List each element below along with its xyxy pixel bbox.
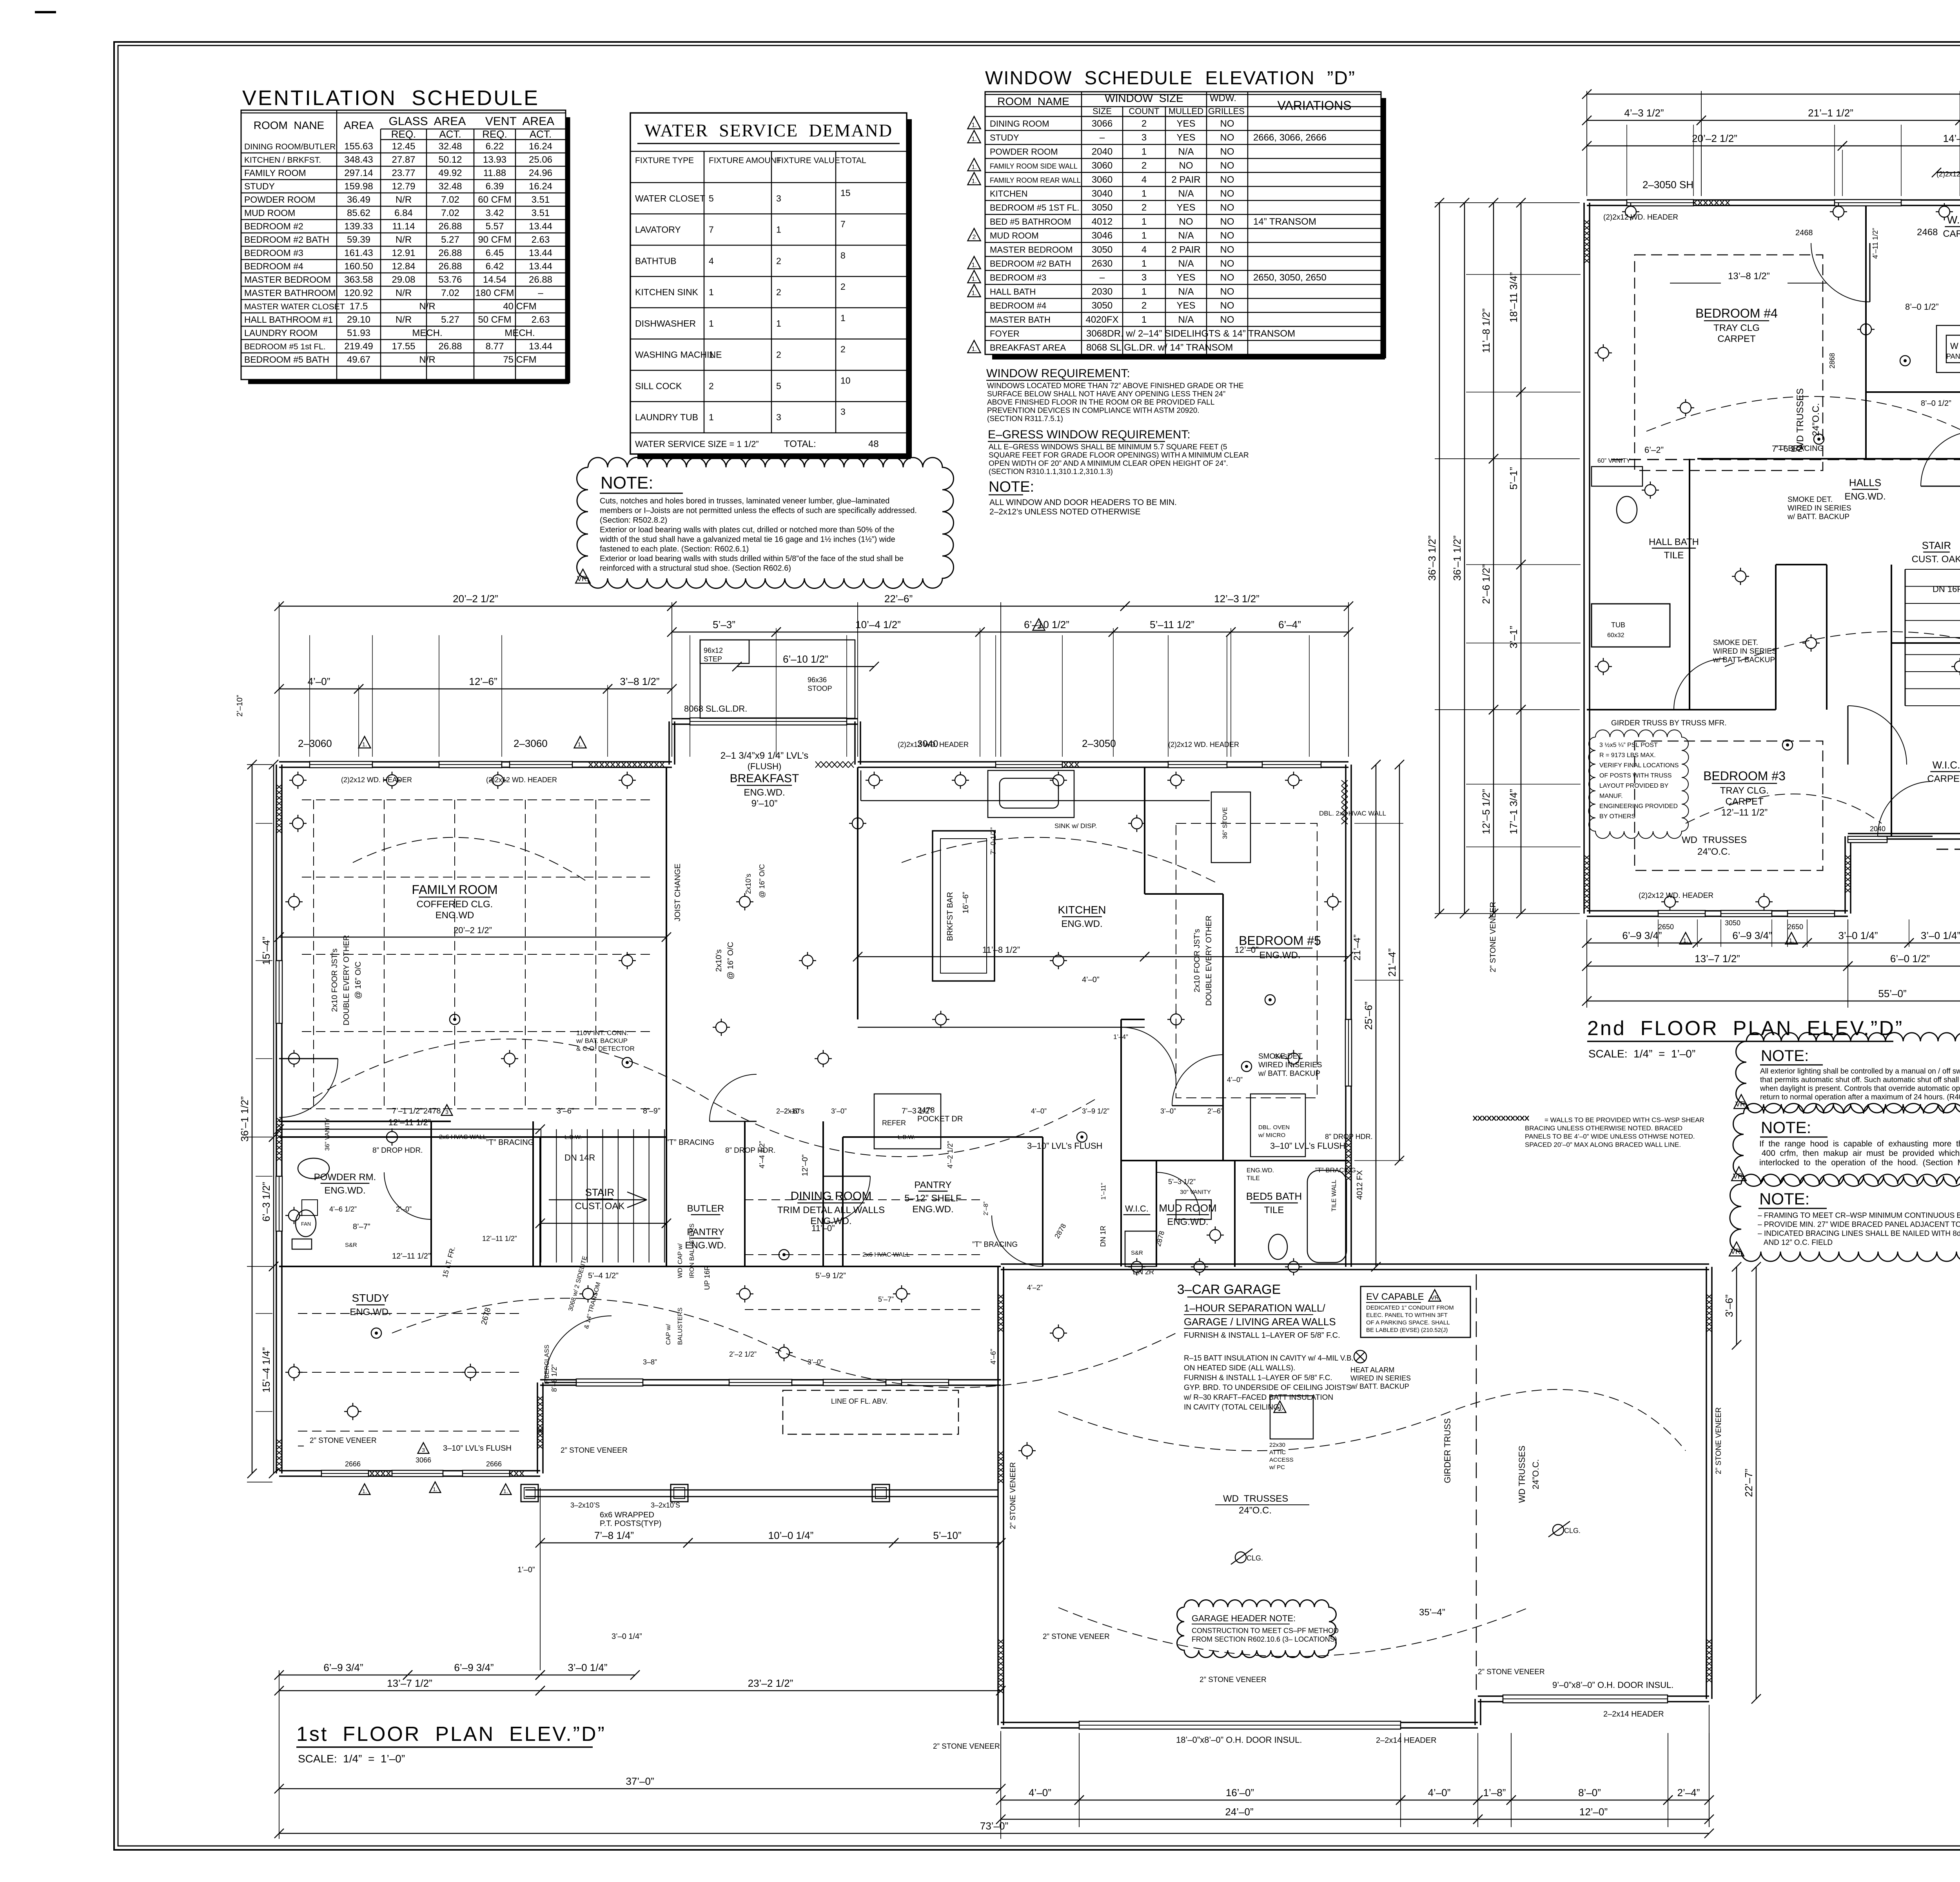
svg-text:YES: YES — [1176, 133, 1195, 143]
svg-text:7’–0 1/2”: 7’–0 1/2” — [989, 827, 997, 855]
svg-text:1: 1 — [776, 225, 781, 235]
svg-text:3–10” LVL’s FLUSH: 3–10” LVL’s FLUSH — [443, 1444, 512, 1453]
svg-text:DBL. OVEN: DBL. OVEN — [1258, 1124, 1290, 1131]
svg-text:2” STONE VENEER: 2” STONE VENEER — [1715, 1407, 1723, 1474]
svg-text:1: 1 — [1142, 189, 1147, 199]
svg-text:3’–0 1/4”: 3’–0 1/4” — [568, 1662, 607, 1673]
1st floor dimensions top — [279, 602, 279, 757]
svg-text:WINDOWS LOCATED MORE THAN 72”: WINDOWS LOCATED MORE THAN 72” ABOVE FINI… — [987, 382, 1244, 390]
svg-text:13’–8 1/2”: 13’–8 1/2” — [1728, 271, 1770, 282]
svg-text:10’–4 1/2”: 10’–4 1/2” — [855, 619, 901, 630]
svg-text:2.63: 2.63 — [532, 314, 550, 325]
svg-text:26.88: 26.88 — [438, 261, 462, 272]
svg-text:37’–0”: 37’–0” — [626, 1775, 654, 1787]
svg-text:4’–3 1/2”: 4’–3 1/2” — [1624, 107, 1664, 119]
svg-text:NO: NO — [1220, 300, 1234, 311]
svg-text:(2)2x12 WD. HEADER: (2)2x12 WD. HEADER — [1936, 170, 1960, 178]
svg-text:3’–0 1/4”: 3’–0 1/4” — [1921, 930, 1960, 941]
svg-text:12’–11 1/2”: 12’–11 1/2” — [388, 1117, 431, 1127]
svg-text:SMOKE DET.: SMOKE DET. — [1258, 1052, 1303, 1061]
svg-text:BALUSTERS: BALUSTERS — [677, 1308, 684, 1345]
svg-text:VR.: VR. — [577, 575, 589, 583]
svg-text:3’–9 1/2”: 3’–9 1/2” — [1082, 1107, 1109, 1115]
svg-text:WD TRUSSES: WD TRUSSES — [1795, 388, 1806, 451]
svg-text:LAYOUT PROVIDED BY: LAYOUT PROVIDED BY — [1599, 783, 1669, 789]
svg-text:12.84: 12.84 — [392, 261, 415, 272]
svg-text:5.27: 5.27 — [441, 234, 459, 245]
svg-text:R–15 BATT INSULATION IN CAVITY: R–15 BATT INSULATION IN CAVITY w/ 4–MIL … — [1184, 1354, 1354, 1362]
svg-text:12.79: 12.79 — [392, 181, 415, 192]
svg-text:2650: 2650 — [1788, 923, 1803, 931]
svg-text:24”O.C.: 24”O.C. — [1239, 1505, 1272, 1516]
svg-text:12’–0”: 12’–0” — [801, 1154, 809, 1176]
svg-text:2x10 FOOR JST’s: 2x10 FOOR JST’s — [1193, 929, 1201, 992]
svg-text:(2)2x12 WD. HEADER: (2)2x12 WD. HEADER — [1639, 892, 1713, 900]
attic access garage — [1270, 1396, 1313, 1439]
svg-text:ALL E–GRESS WINDOWS SHALL BE M: ALL E–GRESS WINDOWS SHALL BE MINIMUM 5.7… — [989, 443, 1227, 451]
svg-text:5.27: 5.27 — [441, 314, 459, 325]
svg-text:90 CFM: 90 CFM — [478, 234, 511, 245]
svg-text:NOTE:: NOTE: — [1761, 1118, 1811, 1137]
svg-text:4’–0”: 4’–0” — [1227, 1076, 1243, 1084]
svg-text:1: 1 — [1142, 216, 1147, 227]
ventilation schedule table — [241, 110, 566, 380]
svg-text:–: – — [1100, 272, 1105, 283]
svg-text:2: 2 — [840, 282, 846, 292]
svg-text:BEDROOM #4: BEDROOM #4 — [244, 261, 303, 271]
svg-text:w/ BATT. BACKUP: w/ BATT. BACKUP — [1350, 1382, 1409, 1390]
svg-text:6.42: 6.42 — [486, 261, 504, 272]
svg-text:7.02: 7.02 — [441, 288, 459, 298]
svg-text:160.50: 160.50 — [344, 261, 373, 272]
svg-text:1.: 1. — [362, 741, 367, 748]
svg-text:w/ BATT. BACKUP: w/ BATT. BACKUP — [1258, 1070, 1320, 1078]
svg-text:1.: 1. — [362, 1488, 367, 1494]
svg-text:NO: NO — [1179, 160, 1193, 171]
svg-text:FAMILY ROOM: FAMILY ROOM — [412, 883, 497, 897]
svg-text:13’–7 1/2”: 13’–7 1/2” — [387, 1677, 432, 1689]
svg-text:2–1 3/4”x9 1/4” LVL’s: 2–1 3/4”x9 1/4” LVL’s — [720, 750, 809, 761]
svg-text:7’–6 1/2”: 7’–6 1/2” — [1772, 444, 1806, 454]
svg-text:IRON BALUSTERS: IRON BALUSTERS — [689, 1223, 695, 1278]
revision triangle — [968, 158, 981, 171]
svg-text:”T” BRACING: ”T” BRACING — [1315, 1166, 1356, 1174]
svg-text:3: 3 — [840, 407, 846, 417]
svg-text:1: 1 — [840, 313, 846, 323]
svg-text:2’–10”: 2’–10” — [236, 695, 244, 717]
svg-text:1: 1 — [1142, 314, 1147, 325]
svg-text:SCALE: 1/4” = 1’–0”: SCALE: 1/4” = 1’–0” — [1588, 1048, 1695, 1060]
svg-text:3 ½x5 ¼” PSL POST: 3 ½x5 ¼” PSL POST — [1599, 742, 1658, 748]
1st floor interior walls — [279, 767, 1348, 1267]
svg-text:w/ PC: w/ PC — [1269, 1464, 1285, 1471]
svg-text:LAVATORY: LAVATORY — [635, 225, 681, 235]
svg-text:BEDROOM #4: BEDROOM #4 — [1695, 306, 1778, 320]
svg-text:59.39: 59.39 — [347, 234, 370, 245]
svg-text:24.96: 24.96 — [529, 168, 552, 178]
svg-text:7’–3 1/2”: 7’–3 1/2” — [902, 1107, 932, 1115]
svg-text:5’–1”: 5’–1” — [1508, 467, 1519, 490]
svg-text:3: 3 — [445, 1109, 448, 1115]
svg-text:1.: 1. — [971, 178, 976, 185]
svg-text:POWDER RM.: POWDER RM. — [314, 1172, 376, 1183]
svg-text:ELEC. PANEL TO WITHIN 3FT: ELEC. PANEL TO WITHIN 3FT — [1366, 1312, 1448, 1319]
svg-text:7: 7 — [709, 225, 714, 235]
svg-text:YES: YES — [1176, 118, 1195, 129]
svg-text:BEDROOM #5 1ST FL.: BEDROOM #5 1ST FL. — [990, 203, 1079, 213]
svg-text:FIXTURE TYPE: FIXTURE TYPE — [635, 156, 694, 165]
svg-text:NOTE:: NOTE: — [601, 473, 653, 492]
svg-text:1–HOUR SEPARATION WALL/: 1–HOUR SEPARATION WALL/ — [1184, 1302, 1325, 1314]
svg-text:N/A: N/A — [1178, 146, 1194, 157]
svg-text:DINING ROOM/BUTLER: DINING ROOM/BUTLER — [244, 142, 336, 151]
svg-text:@ 16” O/C: @ 16” O/C — [726, 942, 735, 979]
svg-text:ENG.WD.: ENG.WD. — [350, 1307, 391, 1317]
svg-text:400 crfm, then makup air: 400 crfm, then makup air must be provide… — [1759, 1149, 1960, 1158]
svg-text:HEAT ALARM: HEAT ALARM — [1350, 1366, 1394, 1374]
kitchen counters — [858, 1027, 1145, 1028]
svg-text:1: 1 — [709, 318, 714, 329]
svg-text:SURFACE BELOW SHALL NOT HAVE A: SURFACE BELOW SHALL NOT HAVE ANY OPENING… — [987, 390, 1225, 398]
svg-text:5’–11 1/2”: 5’–11 1/2” — [1150, 619, 1194, 630]
svg-text:BEDROOM #3: BEDROOM #3 — [244, 248, 303, 258]
svg-text:1.: 1. — [971, 346, 976, 352]
svg-text:MUD ROOM: MUD ROOM — [244, 208, 295, 218]
svg-text:(SECTION R311.7.5.1): (SECTION R311.7.5.1) — [987, 415, 1063, 423]
svg-text:1’–8”: 1’–8” — [1483, 1787, 1506, 1798]
svg-text:VR: VR — [1431, 1294, 1439, 1301]
svg-text:13.93: 13.93 — [483, 154, 506, 165]
svg-text:363.58: 363.58 — [344, 274, 373, 285]
svg-text:N/A: N/A — [1178, 286, 1194, 297]
svg-text:16’–6”: 16’–6” — [962, 892, 970, 914]
svg-text:STUDY: STUDY — [990, 133, 1019, 143]
svg-text:DN 1R: DN 1R — [1099, 1226, 1107, 1247]
svg-text:8’–0”: 8’–0” — [1578, 1787, 1601, 1798]
svg-text:2: 2 — [1037, 623, 1040, 630]
svg-text:WINDOW SCHEDULE ELEVATION ”: WINDOW SCHEDULE ELEVATION ”D” — [985, 68, 1356, 89]
svg-text:NO: NO — [1220, 216, 1234, 227]
svg-text:ACT.: ACT. — [530, 128, 552, 140]
svg-text:12’–11 1/2”: 12’–11 1/2” — [392, 1252, 431, 1261]
svg-text:L.B.W.: L.B.W. — [564, 1134, 582, 1141]
svg-text:MASTER BATHROOM: MASTER BATHROOM — [244, 288, 336, 298]
svg-text:FAMILY ROOM REAR WALL: FAMILY ROOM REAR WALL — [990, 176, 1081, 184]
svg-text:26.88: 26.88 — [438, 341, 462, 352]
porch dims — [540, 1542, 688, 1544]
svg-text:2: 2 — [776, 256, 781, 266]
svg-text:6.45: 6.45 — [486, 248, 504, 258]
svg-text:TRAY CLG.: TRAY CLG. — [1720, 785, 1769, 796]
svg-text:(SECTION R310.1.1,310.1.2,310.: (SECTION R310.1.1,310.1.2,310.1.3) — [989, 468, 1113, 476]
garage header note cloud — [1177, 1600, 1336, 1658]
svg-text:3–8”: 3–8” — [643, 1358, 657, 1366]
svg-text:BED5 BATH: BED5 BATH — [1246, 1190, 1302, 1202]
svg-text:2630: 2630 — [1092, 258, 1112, 269]
svg-text:24”O.C.: 24”O.C. — [1697, 847, 1730, 857]
svg-text:N/R: N/R — [396, 314, 412, 325]
svg-text:297.14: 297.14 — [344, 168, 373, 178]
note cloud - truss cuts — [577, 458, 954, 589]
bed5 tray dashed — [1176, 823, 1317, 1098]
top-left registration dash — [35, 11, 56, 13]
svg-text:6.22: 6.22 — [486, 141, 504, 152]
svg-text:ALL WINDOW AND DOOR HEADERS TO: ALL WINDOW AND DOOR HEADERS TO BE MIN. — [989, 498, 1177, 507]
svg-text:16.24: 16.24 — [529, 181, 552, 192]
svg-text:53.76: 53.76 — [438, 274, 462, 285]
svg-text:3: 3 — [776, 193, 781, 203]
svg-text:– INDICATED BRACING LINES SHAL: – INDICATED BRACING LINES SHALL BE NAILE… — [1758, 1230, 1960, 1238]
svg-text:2–3050 SH: 2–3050 SH — [1642, 179, 1693, 191]
svg-text:5–12” SHELF: 5–12” SHELF — [904, 1193, 961, 1204]
svg-text:(2)2x12 WD. HEADER: (2)2x12 WD. HEADER — [1168, 741, 1239, 748]
svg-text:3: 3 — [1142, 272, 1147, 283]
svg-text:DINING ROOM: DINING ROOM — [791, 1190, 872, 1203]
2nd floor stair treads — [1905, 569, 1960, 570]
1st floor windows — [310, 761, 372, 768]
svg-text:POCKET DR: POCKET DR — [917, 1115, 963, 1123]
svg-text:ENG.WD.: ENG.WD. — [912, 1204, 953, 1215]
extension line textures 1st floor — [309, 635, 310, 757]
svg-text:SMOKE DET.: SMOKE DET. — [1713, 639, 1758, 647]
svg-text:25.06: 25.06 — [529, 154, 552, 165]
svg-text:CONSTRUCTION TO MEET CS–PF MET: CONSTRUCTION TO MEET CS–PF METHOD — [1192, 1627, 1339, 1635]
svg-text:SQUARE FEET FOR GRADE FLOOR OP: SQUARE FEET FOR GRADE FLOOR OPENINGS) WI… — [989, 451, 1249, 460]
svg-text:CARPET: CARPET — [1725, 796, 1764, 807]
svg-text:ENG.WD.: ENG.WD. — [1259, 950, 1300, 961]
svg-text:NO: NO — [1220, 286, 1234, 297]
svg-text:3–10” LVL’s FLUSH: 3–10” LVL’s FLUSH — [1270, 1141, 1345, 1151]
svg-text:3: 3 — [776, 412, 781, 422]
svg-text:1’–11”: 1’–11” — [1100, 1183, 1107, 1200]
svg-text:KITCHEN / BRKFST.: KITCHEN / BRKFST. — [244, 156, 321, 165]
svg-text:ENG.WD.: ENG.WD. — [1844, 491, 1886, 502]
svg-text:BEDROOM #3: BEDROOM #3 — [1703, 769, 1786, 783]
svg-text:1.: 1. — [971, 276, 976, 283]
svg-text:55’–0”: 55’–0” — [1878, 988, 1906, 999]
svg-text:4012 FX: 4012 FX — [1356, 1170, 1364, 1200]
svg-text:NO: NO — [1220, 174, 1234, 185]
svg-text:12.45: 12.45 — [392, 141, 415, 152]
svg-text:DISHWASHER: DISHWASHER — [635, 318, 696, 329]
svg-text:2478: 2478 — [423, 1107, 441, 1115]
svg-text:NO: NO — [1220, 244, 1234, 255]
svg-text:POWDER ROOM: POWDER ROOM — [990, 147, 1058, 156]
svg-text:– PROVIDE MIN. 27” WIDE BRACED: – PROVIDE MIN. 27” WIDE BRACED PANEL ADJ… — [1758, 1221, 1960, 1229]
svg-text:BY OTHERS: BY OTHERS — [1599, 813, 1635, 820]
svg-text:96x12: 96x12 — [704, 647, 723, 654]
svg-text:CUST. OAK: CUST. OAK — [575, 1201, 625, 1212]
svg-text:DN 14R: DN 14R — [564, 1153, 595, 1163]
svg-text:WIRED IN SERIES: WIRED IN SERIES — [1350, 1374, 1411, 1382]
note cloud - bracing — [1730, 1174, 1960, 1261]
smoke det note bed5 — [1241, 1061, 1252, 1072]
2nd floor corner hatches — [1584, 220, 1590, 225]
svg-text:VENTILATION SCHEDULE: VENTILATION SCHEDULE — [242, 86, 539, 110]
study dashed lines — [298, 1313, 521, 1314]
svg-text:4012: 4012 — [1092, 216, 1112, 227]
svg-text:1.: 1. — [1278, 1406, 1283, 1412]
svg-text:JOIST CHANGE: JOIST CHANGE — [673, 864, 682, 921]
svg-text:23’–2 1/2”: 23’–2 1/2” — [748, 1677, 793, 1689]
svg-text:VERIFY FINAL LOCATIONS: VERIFY FINAL LOCATIONS — [1599, 762, 1679, 769]
svg-text:4’–2”: 4’–2” — [1027, 1284, 1043, 1292]
svg-text:2’–6”: 2’–6” — [1207, 1107, 1223, 1115]
svg-text:BEDROOM #2 BATH: BEDROOM #2 BATH — [990, 259, 1071, 269]
2nd floor tray ceiling dashed rects — [1635, 255, 1823, 470]
svg-text:2 PAIR: 2 PAIR — [1171, 174, 1200, 185]
svg-text:TUB: TUB — [1611, 621, 1625, 629]
svg-text:2: 2 — [776, 350, 781, 360]
svg-text:6’–10 1/2”: 6’–10 1/2” — [1024, 619, 1069, 630]
svg-text:N/A: N/A — [1178, 314, 1194, 325]
2nd floor plan exterior walls — [1584, 159, 1960, 916]
svg-text:8” DROP HDR.: 8” DROP HDR. — [725, 1146, 775, 1155]
svg-text:2868: 2868 — [1828, 353, 1836, 369]
svg-text:12’–0”: 12’–0” — [1234, 945, 1258, 955]
svg-text:8” DROP HDR.: 8” DROP HDR. — [1325, 1133, 1373, 1141]
svg-text:@ 16” O/C: @ 16” O/C — [354, 961, 363, 999]
svg-text:3’–8 1/2”: 3’–8 1/2” — [620, 676, 659, 687]
svg-text:@ 16” O/C: @ 16” O/C — [758, 864, 766, 898]
svg-text:7.02: 7.02 — [441, 208, 459, 218]
svg-text:MANUF.: MANUF. — [1599, 793, 1623, 799]
svg-text:ROOM NANE: ROOM NANE — [254, 119, 324, 131]
svg-text:2” STONE VENEER: 2” STONE VENEER — [1009, 1462, 1017, 1529]
svg-text:5’–3”: 5’–3” — [713, 619, 735, 630]
2nd floor switch wiring dashed curves — [1646, 396, 1960, 486]
svg-text:(2)2x12 WD. HEADER: (2)2x12 WD. HEADER — [341, 776, 412, 784]
svg-text:2: 2 — [1142, 202, 1147, 213]
svg-text:1: 1 — [1142, 286, 1147, 297]
svg-text:8’–0 1/2”: 8’–0 1/2” — [1921, 399, 1951, 408]
svg-text:N/R: N/R — [419, 354, 435, 365]
svg-text:2666, 3066, 2666: 2666, 3066, 2666 — [1253, 133, 1327, 143]
svg-text:VENT AREA: VENT AREA — [485, 115, 554, 128]
svg-text:6’–2”: 6’–2” — [1644, 445, 1664, 455]
svg-text:20’–2 1/2”: 20’–2 1/2” — [454, 925, 492, 935]
svg-text:REQ.: REQ. — [482, 128, 507, 140]
svg-text:w/ BAT. BACKUP: w/ BAT. BACKUP — [576, 1037, 628, 1045]
revision triangle — [968, 340, 981, 353]
svg-text:3’–1”: 3’–1” — [1508, 626, 1519, 649]
svg-text:ENG.WD.: ENG.WD. — [1061, 919, 1102, 929]
window schedule table — [985, 92, 1381, 354]
svg-text:2’–6”: 2’–6” — [784, 1107, 800, 1115]
svg-text:BEDROOM #5 1st FL.: BEDROOM #5 1st FL. — [244, 342, 326, 351]
svg-text:18’–0”x8’–0” O.H. DOOR INSUL.: 18’–0”x8’–0” O.H. DOOR INSUL. — [1176, 1735, 1302, 1745]
svg-text:BEDROOM #4: BEDROOM #4 — [990, 301, 1046, 311]
svg-text:15’–4”: 15’–4” — [260, 937, 272, 965]
revision triangle — [968, 271, 981, 283]
svg-text:IN CAVITY (TOTAL CEILING).: IN CAVITY (TOTAL CEILING). — [1184, 1403, 1283, 1411]
svg-text:17’–1 3/4”: 17’–1 3/4” — [1508, 789, 1519, 834]
svg-text:4’–4 1/2”: 4’–4 1/2” — [758, 1141, 766, 1168]
svg-text:5’–9 1/2”: 5’–9 1/2” — [815, 1272, 846, 1280]
note cloud - exterior lighting — [1736, 1033, 1960, 1113]
svg-text:CAP w/: CAP w/ — [665, 1324, 672, 1345]
svg-text:YES: YES — [1176, 300, 1195, 311]
svg-text:17.5: 17.5 — [350, 301, 368, 312]
svg-text:36’–1 1/2”: 36’–1 1/2” — [239, 1096, 250, 1142]
svg-text:2.63: 2.63 — [532, 234, 550, 245]
svg-text:NO: NO — [1220, 314, 1234, 325]
svg-text:TRAY CLG: TRAY CLG — [1713, 323, 1760, 333]
svg-text:4’–0”: 4’–0” — [308, 676, 330, 687]
svg-text:1.: 1. — [1683, 937, 1688, 944]
1st floor wiring dashed curves — [314, 1039, 1098, 1157]
svg-text:8’–0 1/2”: 8’–0 1/2” — [1905, 302, 1939, 312]
svg-text:MASTER BEDROOM: MASTER BEDROOM — [990, 245, 1073, 254]
dining dashed ceiling — [745, 1199, 980, 1200]
svg-text:2–2x12’s UNLESS NOTED OTHERWIS: 2–2x12’s UNLESS NOTED OTHERWISE — [989, 507, 1141, 516]
svg-text:10’–0 1/4”: 10’–0 1/4” — [768, 1530, 814, 1541]
svg-text:49.67: 49.67 — [347, 354, 370, 365]
svg-text:7: 7 — [840, 219, 846, 229]
svg-text:3.42: 3.42 — [486, 208, 504, 218]
svg-text:NO: NO — [1220, 189, 1234, 199]
svg-text:ENG.WD: ENG.WD — [436, 910, 474, 921]
svg-text:6’–3 1/2”: 6’–3 1/2” — [260, 1182, 272, 1221]
svg-text:1.: 1. — [971, 164, 976, 171]
svg-text:4’–0”: 4’–0” — [1031, 1107, 1047, 1115]
svg-text:2666: 2666 — [486, 1460, 502, 1468]
svg-text:MASTER BEDROOM: MASTER BEDROOM — [244, 274, 331, 285]
svg-text:OF POSTS WITH TRUSS: OF POSTS WITH TRUSS — [1599, 772, 1672, 779]
svg-text:FOYER: FOYER — [990, 329, 1020, 339]
svg-text:2–3060: 2–3060 — [514, 738, 548, 749]
svg-text:FAMILY ROOM SIDE WALL: FAMILY ROOM SIDE WALL — [990, 162, 1078, 170]
svg-text:2030: 2030 — [1092, 286, 1112, 297]
svg-text:OPEN WIDTH OF 20” AND A MINIMU: OPEN WIDTH OF 20” AND A MINIMUM CLEAR OP… — [989, 460, 1228, 468]
svg-text:–: – — [1100, 133, 1105, 143]
svg-text:3066: 3066 — [416, 1456, 431, 1464]
svg-text:5’–3 1/2”: 5’–3 1/2” — [1168, 1178, 1196, 1186]
svg-text:NO: NO — [1220, 160, 1234, 171]
svg-text:2’–4”: 2’–4” — [1677, 1787, 1700, 1798]
svg-text:2” STONE VENEER: 2” STONE VENEER — [1489, 902, 1497, 972]
svg-text:FURNISH & INSTALL 1–LAYER OF 5: FURNISH & INSTALL 1–LAYER OF 5/8” F.C. — [1184, 1331, 1340, 1340]
svg-text:interlocked to the operatio: interlocked to the operation of the hood… — [1759, 1158, 1960, 1167]
svg-text:(2)2x12 WD. HEADER: (2)2x12 WD. HEADER — [898, 741, 969, 748]
svg-text:2x6 HVAC WALL: 2x6 HVAC WALL — [439, 1134, 486, 1141]
svg-text:1.: 1. — [503, 1488, 508, 1494]
svg-text:(Section: R502.8.2): (Section: R502.8.2) — [600, 516, 667, 525]
svg-text:2 PAIR: 2 PAIR — [1171, 244, 1200, 255]
svg-text:4: 4 — [709, 256, 714, 266]
svg-text:4’–11 1/2”: 4’–11 1/2” — [1871, 228, 1879, 259]
svg-text:73’–0”: 73’–0” — [980, 1820, 1008, 1832]
svg-text:3’–0”: 3’–0” — [831, 1107, 847, 1115]
garage walls — [998, 1264, 1712, 1728]
svg-text:2’–6 1/2”: 2’–6 1/2” — [1480, 564, 1492, 604]
svg-text:2” STONE VENEER: 2” STONE VENEER — [1200, 1676, 1267, 1684]
svg-text:4: 4 — [1142, 244, 1147, 255]
svg-text:1.: 1. — [971, 136, 976, 143]
svg-text:DOUBLE EVERY OTHER: DOUBLE EVERY OTHER — [342, 935, 351, 1025]
svg-text:GIRDER TRUSS: GIRDER TRUSS — [1443, 1418, 1452, 1483]
svg-text:2” STONE VENEER: 2” STONE VENEER — [310, 1437, 377, 1445]
svg-text:26.88: 26.88 — [529, 274, 552, 285]
svg-text:SCALE: 1/4” = 1’–0”: SCALE: 1/4” = 1’–0” — [298, 1753, 405, 1765]
svg-text:8’–7”: 8’–7” — [353, 1223, 370, 1231]
svg-text:50.12: 50.12 — [438, 154, 462, 165]
ev capable box — [1361, 1286, 1470, 1337]
svg-text:49.92: 49.92 — [438, 168, 462, 178]
svg-text:when daylight is present. Cont: when daylight is present. Controls that … — [1760, 1085, 1960, 1093]
extension line textures 2nd floor — [1626, 125, 1627, 196]
svg-text:1: 1 — [1142, 231, 1147, 241]
